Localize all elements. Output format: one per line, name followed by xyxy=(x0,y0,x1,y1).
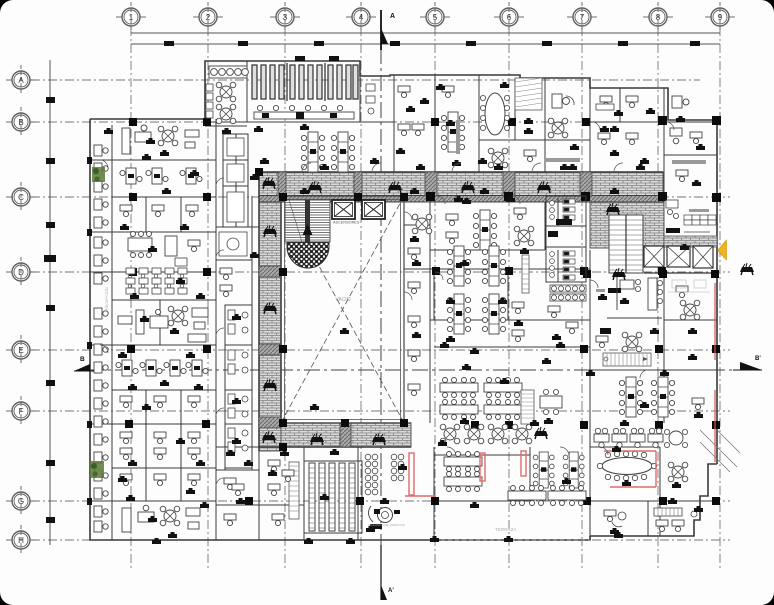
section marker A' bottom xyxy=(381,545,394,600)
svg-text:VACIO: VACIO xyxy=(335,297,350,303)
section marker B left xyxy=(74,356,94,371)
terrace dashed boundary xyxy=(434,539,590,541)
elevator lobby wall xyxy=(644,272,717,274)
bubble row G xyxy=(6,486,36,516)
bubble column 5 xyxy=(420,2,450,32)
svg-text:A: A xyxy=(390,13,395,20)
svg-text:7: 7 xyxy=(580,13,585,22)
left wing office room B1 furniture xyxy=(122,125,199,156)
right top block room 4-5 desks xyxy=(396,86,424,154)
green planter upper left xyxy=(92,167,105,182)
svg-text:B': B' xyxy=(755,356,761,362)
svg-text:A: A xyxy=(18,76,24,85)
corridor pier band left D xyxy=(259,266,281,277)
main stair in atrium xyxy=(285,200,330,242)
corridor bottom walls xyxy=(259,446,411,448)
corridor bench lobby 4 xyxy=(740,263,754,275)
bubble column 4 xyxy=(346,2,376,32)
library service desk row xyxy=(254,105,354,119)
interior walls center top block xyxy=(205,61,390,305)
left wing bottom room xyxy=(122,505,200,532)
corridor pier band left E xyxy=(259,344,281,355)
atrium diagonal brace X xyxy=(281,196,404,423)
washroom block walls xyxy=(546,196,586,282)
left wing conference room D xyxy=(128,232,200,258)
bubble column 2 xyxy=(193,2,223,32)
bubble row D xyxy=(6,257,36,287)
left wing lounge room E xyxy=(118,306,208,342)
interior walls left wing xyxy=(90,119,216,540)
corridor pier band 4a xyxy=(354,172,362,196)
interior walls right top block xyxy=(390,75,717,250)
bubble row A xyxy=(6,65,36,95)
grid line 8 vertical xyxy=(657,27,659,568)
svg-text:F: F xyxy=(19,407,24,416)
right top block conference room 6 xyxy=(456,93,510,154)
svg-text:8: 8 xyxy=(656,13,661,22)
WC fixtures column xyxy=(228,310,248,452)
training rows F-G center xyxy=(444,452,482,492)
grid line E horizontal xyxy=(31,349,730,351)
corridor bench top corner xyxy=(262,177,276,189)
small desks along corridor rooms xyxy=(220,268,232,297)
grid line H horizontal xyxy=(31,539,730,541)
waiting chairs columns xyxy=(365,454,404,495)
left dimension line xyxy=(49,60,51,545)
top dimension double line xyxy=(131,33,720,44)
left wall booth desks upper run xyxy=(94,145,108,284)
open plan D-E clusters xyxy=(447,246,505,334)
far right block desks B-C xyxy=(670,128,706,186)
corridor bench top 2 xyxy=(388,181,402,193)
corridor pier band C7 xyxy=(580,172,592,196)
conference room oval table bottom right xyxy=(597,451,656,486)
corridor west wall line xyxy=(258,172,260,451)
grid line A horizontal xyxy=(31,79,700,81)
left wing open desk row E-F xyxy=(116,360,208,386)
library lockers circle row xyxy=(209,66,248,78)
section line B-B horizontal xyxy=(88,369,760,371)
corridor hatch elevator band xyxy=(664,236,717,247)
washroom fixtures lower xyxy=(548,231,575,280)
corridor bench top 1 xyxy=(308,181,322,193)
bubble column 8 xyxy=(643,2,673,32)
bubble row H xyxy=(6,525,36,555)
corridor bench left corner xyxy=(262,431,276,443)
interior walls bottom-left block xyxy=(216,447,304,540)
grid line G horizontal xyxy=(31,500,730,502)
desks E strip right of washrooms xyxy=(548,306,578,340)
section line A-A vertical xyxy=(380,48,382,598)
svg-text:4: 4 xyxy=(359,13,364,22)
bubble row F xyxy=(6,396,36,426)
top right diagonal stair xyxy=(515,78,542,110)
open clusters right E-F xyxy=(619,377,674,417)
right stair double run xyxy=(609,215,643,273)
corridor north wall line xyxy=(259,171,663,173)
assorted wall marks xyxy=(104,82,705,544)
far right room D-E xyxy=(676,286,700,334)
small stair E-F xyxy=(521,390,534,424)
desk row above G xyxy=(508,486,586,506)
bubble row B xyxy=(6,107,36,137)
svg-text:D: D xyxy=(18,268,24,277)
narrow room fixtures right of stacks xyxy=(366,84,375,114)
corridor bench lobby 2 xyxy=(534,427,548,439)
bottom-left extra desks xyxy=(226,450,294,496)
elevator bank right 3 xyxy=(693,246,713,268)
corridor bench left 1 xyxy=(263,225,277,237)
elevator bank right 2 xyxy=(667,246,690,267)
bottom right office desks xyxy=(604,510,626,534)
svg-text:H: H xyxy=(18,536,24,545)
grid line 5 vertical xyxy=(434,27,436,568)
corridor hatch top xyxy=(259,172,663,196)
bubble column 6 xyxy=(494,2,524,32)
corridor pier band C6 xyxy=(503,172,515,196)
section marker A top xyxy=(381,10,395,50)
red partition accents xyxy=(405,451,656,496)
svg-text:5: 5 xyxy=(433,13,438,22)
grid line 9 vertical xyxy=(719,27,721,568)
right top block cluster room 5 xyxy=(441,86,464,166)
round table G right xyxy=(664,429,687,488)
corner desk F right xyxy=(692,398,704,418)
corridor pier band C3 xyxy=(425,172,437,196)
corridor hatch bottom xyxy=(281,423,411,447)
elevator bank right 1 xyxy=(644,246,664,267)
interior walls bottom zone xyxy=(304,423,717,540)
service rooms along corridor upper xyxy=(219,138,247,256)
washroom fixtures upper xyxy=(550,199,575,225)
corridor bench bottom 2 xyxy=(372,433,386,445)
bottom right striped room xyxy=(654,508,697,532)
svg-text:1: 1 xyxy=(129,13,134,22)
left wing small offices row C xyxy=(120,205,198,217)
svg-text:3: 3 xyxy=(283,13,288,22)
left wing open desks row C xyxy=(120,168,202,194)
clusters G right xyxy=(533,452,584,488)
svg-text:C: C xyxy=(18,193,24,202)
stair rounded landing dome xyxy=(287,242,329,268)
far right top rooms 8 xyxy=(596,96,638,116)
grid line 4 vertical xyxy=(360,27,362,568)
grid line D horizontal xyxy=(31,271,730,273)
corridor bench left 3 xyxy=(263,379,277,391)
desks rooms B-C right of 7 xyxy=(598,133,649,164)
corridor bench lobby 1 xyxy=(606,203,620,215)
ramp diagonal bottom right xyxy=(700,430,740,472)
offices between corridor and D right side xyxy=(412,198,496,250)
corridor pier band left F2 xyxy=(259,417,281,428)
room 8 desks D-E xyxy=(596,277,663,352)
right top block rooms 6-7 xyxy=(488,128,536,168)
interior walls right middle zone xyxy=(404,196,717,423)
corridor bench bottom 1 xyxy=(310,433,324,445)
ramp ladder left of auditorium xyxy=(289,462,299,519)
svg-text:B: B xyxy=(80,356,85,363)
open plan E-F middle rows xyxy=(440,364,522,420)
corridor bench top 3 xyxy=(461,181,475,193)
desks room 6 below corridor xyxy=(514,208,534,246)
bubble column 7 xyxy=(567,2,597,32)
elevator shaft pair left xyxy=(332,200,355,219)
desk row below F right wing xyxy=(594,428,663,447)
svg-text:6: 6 xyxy=(507,13,512,22)
red wall segments right edge xyxy=(714,283,716,462)
atrium void outline xyxy=(281,196,404,423)
window mullion marks left wall xyxy=(87,157,92,505)
svg-text:G: G xyxy=(18,497,24,506)
left dimension ticks xyxy=(44,97,56,523)
left wall booth desks lower run xyxy=(94,308,108,532)
corridor hatch right lobby xyxy=(590,196,664,248)
grid line F horizontal xyxy=(31,410,730,412)
grid line 2 vertical xyxy=(207,27,209,568)
interior walls WC block along corridor xyxy=(216,305,259,505)
svg-text:VIGILANCIA DEL DIRECTOR: VIGILANCIA DEL DIRECTOR xyxy=(368,523,405,527)
svg-text:E: E xyxy=(18,346,23,355)
left wing offices G xyxy=(120,474,200,486)
corridor bench lobby 3 xyxy=(612,268,626,280)
top block roof marks xyxy=(295,56,339,61)
library stack shelves xyxy=(252,63,358,101)
exterior walls xyxy=(90,61,717,540)
left wing classroom rows xyxy=(126,258,187,294)
corridor bench left 2 xyxy=(263,302,277,314)
svg-text:2: 2 xyxy=(206,13,211,22)
svg-text:B: B xyxy=(18,118,23,127)
horizontal stair mid right xyxy=(603,353,651,366)
grid line C horizontal xyxy=(31,196,730,198)
top dimension ticks xyxy=(164,41,700,46)
hall desk clusters below library xyxy=(301,132,354,172)
door swing arcs xyxy=(100,122,674,486)
bottom-left block desks xyxy=(224,450,289,526)
structural columns xyxy=(125,116,721,505)
corridor pier band 3a xyxy=(278,172,286,196)
svg-text:TERRAZA: TERRAZA xyxy=(495,527,517,532)
corridor bench top 4 xyxy=(537,181,551,193)
corridor pier band bottom 4 xyxy=(340,423,351,447)
grid line 6 vertical xyxy=(508,27,510,568)
bubble row C xyxy=(6,182,36,212)
ghost furniture below right elevators xyxy=(668,280,710,292)
meeting table E-F xyxy=(540,389,562,424)
locker chair rows below washrooms xyxy=(550,285,586,301)
bubble column 1 xyxy=(116,2,146,32)
right top block manager office 7 xyxy=(546,94,580,170)
left wing offices F row 1 xyxy=(120,396,200,408)
corridor hatch left vertical xyxy=(259,172,281,451)
svg-text:RECEPCION: RECEPCION xyxy=(105,287,109,310)
right of atrium small offices xyxy=(408,236,420,396)
library reading tables xyxy=(216,82,236,102)
bubble row E xyxy=(6,335,36,365)
bubble column 3 xyxy=(270,2,300,32)
reception desk spiral xyxy=(366,506,400,532)
far right corner room 9 xyxy=(672,96,689,122)
svg-text:ASCENSORES: ASCENSORES xyxy=(333,221,360,225)
grid line 7 vertical xyxy=(581,27,583,568)
GRID BUBBLES TOP xyxy=(0,0,1,1)
bubble column 9 xyxy=(705,2,735,32)
elevator shaft pair right xyxy=(362,200,385,219)
svg-text:A': A' xyxy=(388,588,394,594)
D-E ladder shelf strip xyxy=(512,255,529,342)
corridor inner wall line xyxy=(280,202,282,423)
section marker B' right xyxy=(733,356,762,370)
svg-text:9: 9 xyxy=(718,13,723,22)
green planter lower left xyxy=(90,461,104,478)
grid line 3 vertical xyxy=(284,27,286,568)
corridor south wall hatched band xyxy=(259,196,664,203)
grid line B horizontal xyxy=(31,121,718,123)
far right shelf room C-D xyxy=(666,200,716,233)
orange level marker right xyxy=(718,240,727,260)
pantry boxes column xyxy=(206,84,213,118)
cafeteria tables F-G xyxy=(440,424,532,444)
auditorium seat columns xyxy=(309,463,355,531)
grid line 1 vertical xyxy=(130,27,132,568)
left wing offices F row 2 xyxy=(120,432,200,460)
